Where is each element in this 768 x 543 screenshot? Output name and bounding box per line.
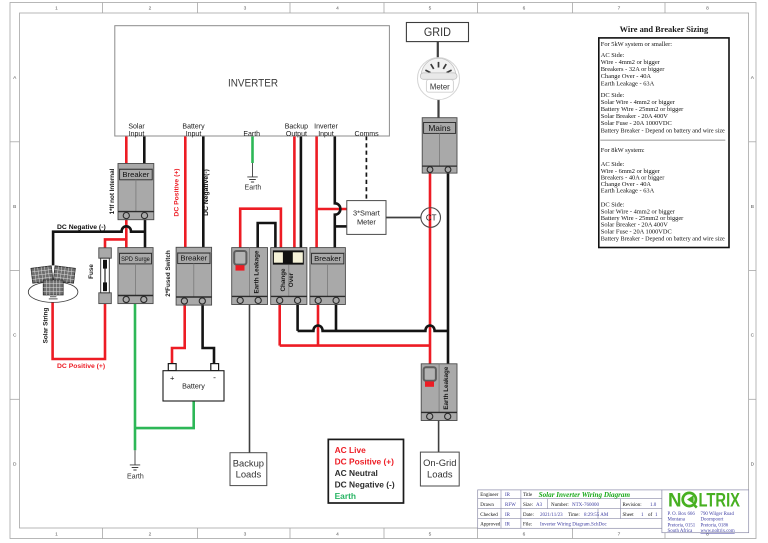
svg-text:Wire - 4mm2 or bigger: Wire - 4mm2 or bigger [601,59,661,66]
svg-text:RFW: RFW [505,503,516,508]
svg-text:Loads: Loads [427,468,453,479]
wire: inverter input live tap to smart meter [317,208,347,211]
earth symbol below inverter [247,163,257,182]
svg-text:8:29:55 AM: 8:29:55 AM [584,513,609,518]
svg-text:www.noltrix.com: www.noltrix.com [701,529,735,534]
svg-text:of: of [648,513,653,518]
svg-text:1.0: 1.0 [650,503,657,508]
svg-text:Backup: Backup [233,457,264,468]
wire: battery earth green [135,401,194,428]
earth leakage EL2 (grid side) [421,364,457,421]
svg-text:Breaker: Breaker [122,170,149,179]
Noltrix logo [668,491,741,535]
wire: mains neutral down to earth leakage 2 [447,173,450,364]
svg-text:Earth Leakage: Earth Leakage [443,366,450,410]
wire: comms dashed line to smart meter [365,136,367,201]
wire: backup output live [293,136,296,248]
svg-text:Revision:: Revision: [623,503,642,508]
breaker B1 solar (1* if not internal) [118,164,154,220]
wire: battery breaker to battery negative [203,305,214,364]
svg-text:790 Wilger Road: 790 Wilger Road [701,512,735,517]
svg-text:Sheet: Sheet [623,513,635,518]
svg-text:5: 5 [429,5,432,11]
svg-text:IR: IR [505,513,511,518]
svg-text:Fuse: Fuse [88,264,95,279]
earth leakage EL1 (backup side) [232,248,268,305]
title block table [478,490,749,533]
svg-text:Loads: Loads [236,469,262,480]
svg-text:B: B [751,204,754,210]
wire: battery input DC negative [202,136,205,248]
changeover switch [271,248,307,305]
svg-text:D: D [751,461,755,467]
svg-text:Battery Breaker - Depend on ba: Battery Breaker - Depend on battery and … [601,235,725,242]
wire: AC live horizontal bus [280,344,430,347]
svg-text:+: + [170,374,175,383]
svg-text:INVERTER: INVERTER [228,77,278,89]
wire: grid to meter [437,42,439,58]
svg-text:6: 6 [523,532,526,538]
wire: changeover bottom neutral down [296,305,299,331]
wire: solar panel DC positive to fuse bottom [53,303,105,360]
backup loads box [230,453,267,486]
svg-text:Change: Change [280,268,287,292]
svg-text:A3: A3 [536,503,543,508]
svg-text:South Africa: South Africa [668,529,694,534]
svg-text:IR: IR [505,493,511,498]
meter [418,58,460,100]
svg-text:Input: Input [186,131,202,138]
svg-text:NTX-760000: NTX-760000 [572,503,599,508]
wire: smart meter to CT [386,217,421,219]
mains box [422,118,457,173]
svg-text:Inverter Wiring Diagram.SchDoc: Inverter Wiring Diagram.SchDoc [540,523,608,528]
svg-text:Output: Output [286,131,307,138]
svg-text:Backup: Backup [285,123,308,130]
svg-text:Inverter: Inverter [314,123,338,130]
svg-text:Size:: Size: [523,503,533,508]
fuse F1 [99,248,112,304]
wire: earth-leakage-1 live loop to changeover [240,209,281,248]
smart meter box [347,201,386,235]
svg-text:Wire and Breaker Sizing: Wire and Breaker Sizing [620,25,709,34]
wire: solar breaker to SPD surge DC positive [125,220,128,248]
wire: changeover bottom live down [278,305,281,346]
svg-text:AC Live: AC Live [335,445,367,455]
svg-text:File:: File: [523,523,532,528]
svg-text:1*If not Internal: 1*If not Internal [109,168,116,214]
CT current transformer [421,208,441,228]
svg-text:4: 4 [336,5,339,11]
wire: inverter solar input DC positive [125,136,128,164]
svg-text:Pretoria, 0186: Pretoria, 0186 [701,523,729,528]
svg-text:AC Side:: AC Side: [601,52,625,59]
inverter box [115,26,390,138]
svg-text:8: 8 [706,5,709,11]
wire: inverter solar input DC negative [143,136,146,164]
wire: earth leakage 2 to on-grid loads [438,421,440,453]
svg-text:LTRIX: LTRIX [699,491,741,512]
svg-text:Battery Wire - 25mm2 or bigger: Battery Wire - 25mm2 or bigger [601,106,684,113]
legend box [328,439,403,503]
svg-text:On-Grid: On-Grid [423,457,456,468]
wire: earth leakage 1 to backup loads [249,305,251,453]
svg-text:CT: CT [426,214,437,223]
svg-text:Solar: Solar [128,123,145,130]
svg-text:Approved: Approved [480,523,500,528]
grid box [406,23,468,42]
wire: battery breaker to battery positive [172,305,185,364]
svg-text:For 8kW system:: For 8kW system: [601,147,645,154]
svg-text:Over: Over [288,272,295,287]
svg-text:Solar Fuse - 20A 1000VDC: Solar Fuse - 20A 1000VDC [601,120,672,127]
on-grid loads box [420,452,459,486]
svg-text:4: 4 [336,532,339,538]
svg-text:B: B [13,204,16,210]
wire: inverter input neutral with hop over live tap [335,136,341,248]
svg-text:2*Fused Switch: 2*Fused Switch [165,250,172,297]
svg-text:5: 5 [429,532,432,538]
battery [163,364,224,401]
svg-text:DC Positive (+): DC Positive (+) [57,363,105,370]
solar panel icon [28,266,78,303]
svg-text:Breakers - 32A or bigger: Breakers - 32A or bigger [601,66,665,73]
svg-text:Earth: Earth [335,491,356,501]
svg-text:3: 3 [244,5,247,11]
svg-text:N: N [668,491,682,512]
svg-text:Breaker: Breaker [314,254,341,263]
svg-text:SPD Surge: SPD Surge [121,256,150,263]
svg-text:DC Negative (-): DC Negative (-) [335,480,395,490]
svg-text:Comms: Comms [355,131,380,138]
SPD surge protector [118,248,153,304]
wire: inverter input live [315,136,318,248]
wire: inverter input neutral tap to smart meter [335,225,347,228]
svg-text:Earth: Earth [243,131,260,138]
svg-text:Input: Input [318,131,334,138]
svg-text:DC Negative (-): DC Negative (-) [57,224,106,231]
svg-text:3: 3 [244,532,247,538]
svg-text:Battery Breaker - Depend on ba: Battery Breaker - Depend on battery and … [601,128,725,135]
svg-text:2: 2 [149,532,152,538]
svg-text:Title: Title [523,493,533,498]
svg-text:Battery: Battery [182,123,205,130]
wire: breaker3 bottom live down [317,305,320,346]
svg-text:7: 7 [618,5,621,11]
svg-text:Earth: Earth [245,184,262,191]
svg-text:2: 2 [149,5,152,11]
wire: DC negative run to solar panel with hop [53,226,145,265]
svg-text:Breaker: Breaker [180,254,207,263]
wire and breaker sizing note [599,25,729,248]
svg-text:Solar Inverter Wiring Diagram: Solar Inverter Wiring Diagram [539,491,631,499]
svg-text:Meter: Meter [357,218,376,227]
svg-text:IR: IR [505,523,511,528]
wire: backup output neutral [300,136,303,248]
wire: meter to mains [437,100,439,118]
svg-text:2021/11/23: 2021/11/23 [540,513,563,518]
svg-text:C: C [13,333,17,339]
wire: earth-leakage-1 neutral loop to changeover [258,223,276,248]
svg-text:GRID: GRID [424,26,451,39]
svg-text:Solar Wire - 4mm2 or bigger: Solar Wire - 4mm2 or bigger [601,99,676,106]
svg-text:-: - [213,372,216,382]
wire: breaker3 bottom neutral down [335,305,338,331]
svg-text:Pretoria, 0151: Pretoria, 0151 [668,523,696,528]
svg-text:DC Positive (+): DC Positive (+) [173,168,180,216]
svg-text:DC Negative(-): DC Negative(-) [203,169,210,216]
svg-text:7: 7 [618,532,621,538]
wire: branch DC positive to fuse top [105,239,126,247]
svg-text:DC Side:: DC Side: [601,201,625,208]
svg-text:C: C [751,333,755,339]
svg-text:AC Neutral: AC Neutral [335,468,378,478]
svg-text:Battery: Battery [182,382,205,391]
svg-text:Number:: Number: [551,503,569,508]
svg-text:Meter: Meter [430,82,450,91]
svg-text:Input: Input [129,131,145,138]
wire: SPD surge earth green [134,304,137,451]
svg-text:P. O. Box 666: P. O. Box 666 [668,512,696,517]
svg-text:Montana: Montana [668,518,686,523]
svg-text:DC Positive (+): DC Positive (+) [335,457,395,467]
svg-text:Drawn: Drawn [480,503,494,508]
svg-text:Doornpoort: Doornpoort [701,518,724,523]
wire: solar breaker to SPD surge DC negative [144,220,147,248]
svg-text:Time:: Time: [568,513,580,518]
svg-text:For 5kW system or smaller:: For 5kW system or smaller: [601,41,672,48]
svg-text:Earth: Earth [127,473,144,480]
svg-text:Checked: Checked [480,513,498,518]
wire: AC neutral horizontal bus with hops [298,326,448,331]
svg-text:Earth Leakage - 63A: Earth Leakage - 63A [601,80,655,87]
svg-text:1: 1 [55,5,58,11]
wire: mains live down through CT to earth leakage 2 [429,173,432,364]
svg-text:Date:: Date: [523,513,534,518]
svg-text:Solar String: Solar String [43,308,50,344]
wire: battery input DC positive [184,136,187,248]
svg-text:Solar Breaker - 20A 400V: Solar Breaker - 20A 400V [601,221,668,228]
svg-text:D: D [13,461,17,467]
svg-text:3*Smart: 3*Smart [353,208,380,217]
svg-text:Earth Leakage: Earth Leakage [254,250,261,294]
svg-text:6: 6 [523,5,526,11]
wire: inverter earth green lead [251,136,254,163]
breaker B3 inverter input [310,248,346,305]
svg-text:Change Over - 40A: Change Over - 40A [601,73,652,80]
svg-text:Earth Leakage - 63A: Earth Leakage - 63A [601,188,655,195]
breaker B2 battery (2*fused switch) [176,247,212,305]
svg-text:Engineer: Engineer [480,493,498,498]
earth symbol bottom left [130,450,140,470]
svg-text:Mains: Mains [428,123,450,133]
svg-text:1: 1 [55,532,58,538]
